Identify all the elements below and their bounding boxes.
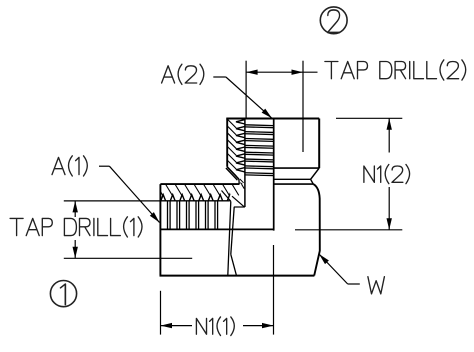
port 2 right chamfer bbox=[311, 168, 320, 179]
W leader bbox=[319, 254, 360, 284]
N1(1) label bbox=[196, 317, 234, 336]
port 2 left chamfer sliver bbox=[226, 167, 244, 184]
TAP DRILL(1) arrows bbox=[73, 201, 78, 258]
port 1 crest line bbox=[160, 200, 229, 202]
body flange lines bbox=[274, 179, 314, 184]
N1(1) right extension line bbox=[273, 245, 275, 335]
N1(1) arrows bbox=[161, 323, 274, 328]
body right edge bbox=[313, 184, 320, 276]
TAP DRILL(1) dimension line bbox=[74, 201, 76, 258]
port 2 boss right edge bbox=[318, 119, 320, 169]
circled port number 1 bbox=[50, 281, 76, 307]
A(1) leader bbox=[99, 166, 160, 222]
N1(2) label bbox=[364, 164, 410, 183]
TAP DRILL(1) upper extension line bbox=[64, 200, 161, 202]
port 2 thread teeth bbox=[236, 120, 245, 172]
body top face bbox=[160, 183, 239, 185]
TAP DRILL(2) label bbox=[325, 60, 466, 80]
N1(1) dimension line bbox=[161, 325, 274, 327]
port 2 axis section line bbox=[273, 119, 275, 230]
port 1 thread runout diagonals bbox=[222, 191, 245, 207]
port 1 axis section line bbox=[160, 228, 273, 230]
port 2 far-side thread lines bbox=[245, 125, 274, 176]
port 1 far-side thread lines bbox=[168, 201, 218, 230]
port 2 tap drill line bbox=[234, 120, 245, 208]
port 1 thread teeth bbox=[161, 195, 230, 201]
body left face bbox=[159, 184, 161, 276]
A(1) label bbox=[52, 156, 87, 176]
N1(2) dimension line bbox=[388, 118, 390, 230]
body bottom edge bbox=[160, 275, 315, 277]
port 2 boss left edge bbox=[226, 119, 228, 167]
TAP DRILL(1) label bbox=[10, 217, 142, 237]
N1(2) lower extension line bbox=[295, 229, 402, 231]
N1(1) left extension line bbox=[160, 291, 162, 335]
port 2 thread hatch bbox=[227, 119, 236, 176]
port 2 boss top edge bbox=[226, 118, 319, 120]
TAP DRILL(2) dimension line bbox=[246, 71, 317, 73]
port 1 drill bottom line / TAP DRILL(1) lower extension bbox=[64, 257, 192, 259]
A(2) leader bbox=[213, 77, 272, 118]
N1(2) arrows bbox=[387, 118, 392, 230]
TAP DRILL(2) arrows bbox=[246, 70, 303, 75]
port 1 thread hatch bbox=[160, 184, 244, 195]
A(2) label bbox=[162, 64, 204, 84]
TAP DRILL(2) left extension line bbox=[245, 61, 247, 119]
W label bbox=[368, 277, 385, 294]
port 1 drill end lines bbox=[228, 201, 237, 275]
port 2 boss bottom edge bbox=[274, 167, 320, 169]
circled port number 2 bbox=[320, 7, 347, 34]
N1(2) upper extension line bbox=[336, 117, 402, 119]
TAP DRILL(2) right extension line bbox=[302, 61, 304, 152]
